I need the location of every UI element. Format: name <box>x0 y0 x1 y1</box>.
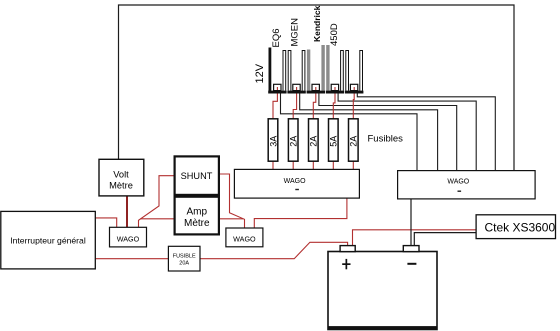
connector J2 (EQ6) <box>287 51 305 94</box>
fuse F2 2A <box>288 119 298 161</box>
voltmeter box <box>99 159 144 196</box>
wire: connector J3 negative to WAGO- <box>319 94 457 171</box>
wire: fuse F3 to WAGO+ <box>312 161 314 169</box>
wire: right WAGO- to battery minus <box>410 199 412 246</box>
svg-text:Fusibles: Fusibles <box>368 134 404 145</box>
main switch box (Interrupteur général) <box>1 211 96 269</box>
svg-text:2A: 2A <box>309 136 319 147</box>
svg-text:WAGO: WAGO <box>233 234 256 243</box>
svg-text:2A: 2A <box>349 136 359 147</box>
wire: connector J5 negative to WAGO- <box>357 94 495 171</box>
wire: J1 positive to fuse F1 <box>273 87 277 119</box>
svg-text:Mètre: Mètre <box>109 180 133 190</box>
svg-text:20A: 20A <box>179 261 189 267</box>
wire: interrupteur to fuse 20A <box>95 258 168 260</box>
shunt box <box>175 156 219 195</box>
svg-text:WAGO: WAGO <box>447 179 469 186</box>
wire: J3 positive to fuse F3 <box>313 87 316 119</box>
connector J1 (12V input) <box>268 48 286 94</box>
svg-text:2A: 2A <box>289 136 299 147</box>
svg-text:Kendrick: Kendrick <box>312 5 322 42</box>
wire: fuse F2 to WAGO+ <box>292 161 294 169</box>
wire: fuse F1 to WAGO+ <box>272 161 274 169</box>
wire: connector J4 negative to WAGO- <box>338 94 476 171</box>
wire: interrupteur to WAGO1 <box>95 218 116 227</box>
connector J4 (Kendrick) <box>326 45 344 94</box>
svg-text:5A: 5A <box>329 136 339 147</box>
svg-text:SHUNT: SHUNT <box>181 171 213 181</box>
svg-text:WAGO: WAGO <box>284 178 306 185</box>
wire: fuse F4 to WAGO+ <box>332 161 334 169</box>
wire: ampmeter right to WAGO2 junction <box>219 218 243 220</box>
connector J5 (450D) <box>345 51 363 94</box>
wire: shunt right to WAGO2 <box>219 174 245 228</box>
WAGO block 1 (left small) <box>110 227 147 247</box>
connector J3 (MGEN) <box>307 45 325 94</box>
svg-text:MGEN: MGEN <box>289 18 300 47</box>
svg-text:EQ6: EQ6 <box>271 28 282 47</box>
ammeter box <box>175 197 219 235</box>
WAGO block 2 (centre small) <box>226 228 263 247</box>
svg-text:FUSIBLE: FUSIBLE <box>173 254 196 260</box>
fuse F3 2A <box>309 119 319 161</box>
WAGO negative busbar (right big) <box>398 171 535 199</box>
fuse F5 2A <box>349 119 359 161</box>
wire: left WAGO+ to WAGO2 <box>254 198 347 228</box>
wire: connector J1 negative to WAGO- <box>281 94 418 171</box>
fuse F1 3A <box>268 119 278 161</box>
wire: Ctek charger to battery minus <box>414 233 476 246</box>
wire: shunt left to WAGO1 <box>139 176 175 228</box>
wire: battery plus to Ctek charger <box>353 230 477 246</box>
wire: fuse 20A to battery plus <box>200 242 348 258</box>
svg-text:Mètre: Mètre <box>184 218 210 229</box>
wire: J5 positive to fuse F5 <box>352 87 355 119</box>
svg-text:Volt: Volt <box>113 169 129 179</box>
wire: voltmeter negative to right WAGO (top frame) <box>119 5 515 171</box>
WAGO positive busbar (left big) <box>234 169 359 198</box>
wire: connector J2 negative to WAGO- <box>300 94 438 171</box>
battery minus terminal post <box>403 246 419 252</box>
wire: ampmeter left to WAGO1 junction <box>140 218 174 220</box>
svg-text:3A: 3A <box>268 136 278 147</box>
battery plus symbol <box>342 263 350 265</box>
fuse F4 5A <box>329 119 339 161</box>
wire: voltmeter to WAGO1 (thick red) <box>126 196 128 227</box>
wire: J4 positive to fuse F4 <box>333 87 335 119</box>
battery <box>328 252 437 330</box>
battery minus symbol <box>407 263 416 265</box>
svg-text:12V: 12V <box>254 63 266 83</box>
svg-text:WAGO: WAGO <box>117 235 140 244</box>
svg-text:Ctek XS3600: Ctek XS3600 <box>484 220 555 234</box>
wire: fuse F5 to WAGO+ <box>352 161 354 169</box>
svg-text:Amp: Amp <box>187 207 208 218</box>
svg-text:Interrupteur général: Interrupteur général <box>10 235 86 245</box>
Ctek XS3600 charger box <box>476 215 555 239</box>
wire: J2 positive to fuse F2 <box>293 87 296 119</box>
svg-text:450D: 450D <box>329 23 340 46</box>
fuse 20A box <box>168 246 200 271</box>
battery plus terminal post <box>340 246 355 252</box>
